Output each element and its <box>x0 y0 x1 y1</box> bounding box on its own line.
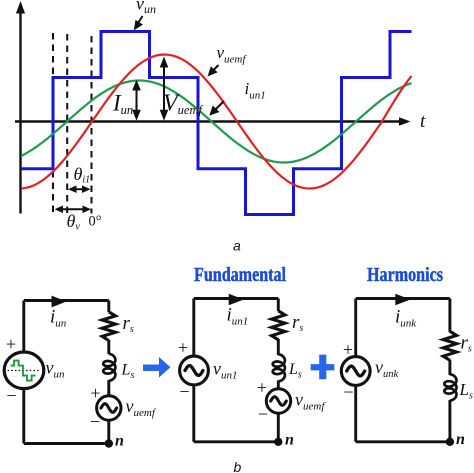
svg-text:vun: vun <box>136 0 156 16</box>
current arrow i_un <box>52 296 67 308</box>
wire r to L circuit3 <box>448 360 451 375</box>
wire circuit2 left upper <box>192 299 195 358</box>
source v_unk circle <box>341 357 370 386</box>
label v_un with arrow <box>134 0 156 30</box>
wire circuit2 top <box>194 297 278 300</box>
t axis <box>15 117 411 126</box>
svg-text:rs: rs <box>292 312 303 334</box>
source v_un1 circle <box>180 356 209 385</box>
node n circuit3 <box>446 438 454 446</box>
svg-text:rs: rs <box>123 313 134 335</box>
wire circuit3 left lower <box>354 384 357 442</box>
wire L to vuemf circuit2 <box>277 381 280 391</box>
wire L to vuemf circuit1 <box>107 380 110 397</box>
svg-text:Harmonics: Harmonics <box>367 264 443 286</box>
svg-text:Fundamental: Fundamental <box>194 264 286 286</box>
wire circuit3 right upper <box>448 299 451 333</box>
svg-text:n: n <box>115 433 124 450</box>
svg-text:Ls: Ls <box>288 361 302 381</box>
svg-text:vunk: vunk <box>375 357 399 380</box>
wire circuit3 top <box>356 297 450 300</box>
svg-text:+: + <box>257 377 267 397</box>
wire r to L circuit2 <box>277 339 280 355</box>
wire vuemf to node circuit1 <box>107 419 110 444</box>
source v_un circle <box>4 352 44 389</box>
svg-text:iun1: iun1 <box>245 79 266 102</box>
blue block arrow <box>143 357 171 378</box>
source v_uemf circuit2 <box>266 389 290 413</box>
svg-text:a: a <box>233 238 241 254</box>
node n circuit2 <box>274 438 282 446</box>
svg-text:t: t <box>420 111 426 132</box>
svg-text:vuemf: vuemf <box>295 390 326 413</box>
svg-text:n: n <box>456 431 465 448</box>
svg-text:+: + <box>6 334 16 354</box>
svg-text:0°: 0° <box>89 214 102 230</box>
wire circuit1 right upper <box>107 301 110 313</box>
wire circuit2 right upper <box>277 299 280 312</box>
double arrow theta_i1 <box>68 185 91 193</box>
wire circuit1 left lower <box>22 388 25 443</box>
svg-text:Iun1: Iun1 <box>112 91 139 118</box>
svg-text:iun1: iun1 <box>227 305 249 328</box>
svg-text:vun1: vun1 <box>213 359 238 382</box>
wire circuit3 bottom <box>356 440 450 443</box>
svg-text:−: − <box>6 385 16 405</box>
blue six-step waveform v_un <box>21 32 412 215</box>
resistor r_s circuit2 <box>272 311 285 340</box>
inductor L_s circuit3 <box>444 374 456 400</box>
double arrow I_un1 (x=136.5) <box>132 80 141 121</box>
source v_uemf circuit1 <box>97 396 121 420</box>
wire circuit1 top <box>24 299 109 302</box>
svg-text:−: − <box>343 382 353 402</box>
resistor r_s circuit1 <box>102 312 115 341</box>
resistor r_s circuit3 <box>443 331 456 360</box>
svg-text:b: b <box>234 459 242 473</box>
svg-text:θv: θv <box>67 211 81 233</box>
svg-text:+: + <box>343 339 353 359</box>
svg-text:vuemf: vuemf <box>217 43 248 66</box>
red sine v_uemf <box>21 55 412 189</box>
current arrow i_unk <box>395 294 410 306</box>
inductor L_s circuit2 <box>273 354 285 381</box>
green sine i_un1 <box>21 81 412 163</box>
svg-text:iunk: iunk <box>395 307 417 330</box>
y axis <box>16 1 25 214</box>
svg-text:Ls: Ls <box>459 380 473 402</box>
svg-text:rs: rs <box>461 333 472 355</box>
svg-text:−: − <box>179 381 189 401</box>
svg-text:vuemf: vuemf <box>126 396 157 419</box>
svg-text:Ls: Ls <box>121 362 135 382</box>
v_un symbol dashed zero line <box>8 370 39 372</box>
wire circuit2 bottom <box>194 440 278 443</box>
dashed line theta_i (x=67.2) <box>66 34 68 214</box>
wire circuit1 bottom <box>24 442 109 445</box>
svg-text:−: − <box>90 411 100 431</box>
svg-text:+: + <box>178 337 188 357</box>
label i_un1 with arrow <box>209 79 265 116</box>
double arrow theta_v <box>55 206 92 214</box>
double arrow V_uemf (x=164) <box>160 57 169 121</box>
inductor L_s circuit1 <box>103 354 115 381</box>
svg-text:n: n <box>285 432 294 449</box>
wire L to node circuit3 <box>448 400 451 442</box>
svg-text:iun: iun <box>50 307 67 330</box>
current arrow i_un1 <box>229 294 244 306</box>
svg-text:−: − <box>258 404 268 424</box>
dashed line 0deg (x=91.5) <box>91 36 93 214</box>
label v_uemf with arrow <box>208 43 248 77</box>
wire circuit3 left upper <box>354 299 357 359</box>
v_un symbol green mini six-step <box>11 361 36 381</box>
svg-text:+: + <box>90 383 100 403</box>
wire circuit2 left lower <box>192 384 195 442</box>
node n circuit1 <box>105 439 113 447</box>
blue plus sign between circuits <box>311 355 335 380</box>
svg-text:θi1: θi1 <box>74 164 91 186</box>
svg-text:vun: vun <box>46 358 66 381</box>
wire vuemf to node circuit2 <box>277 412 280 442</box>
dashed line theta_v (x=53) <box>52 33 54 214</box>
wire r to L circuit1 <box>107 340 110 354</box>
wire circuit1 left upper <box>22 301 25 353</box>
